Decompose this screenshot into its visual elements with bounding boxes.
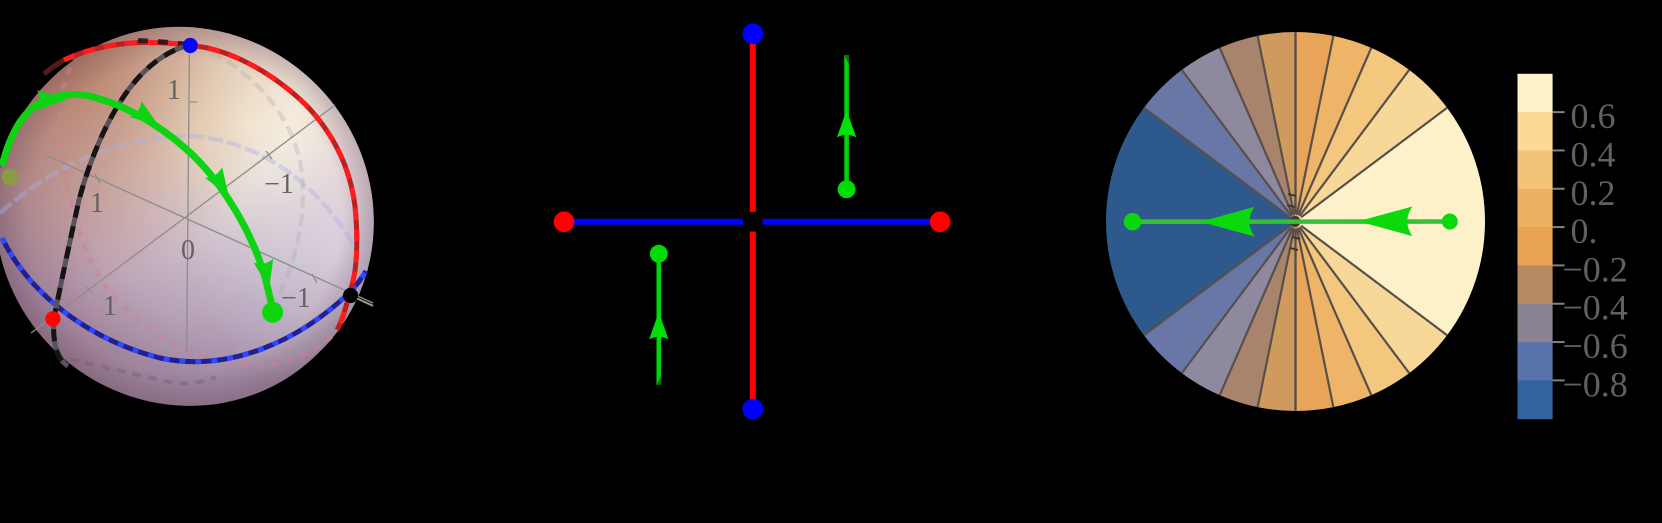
blue dot top [742,23,763,44]
colorbar tick -0.2 [1553,264,1565,266]
black dot on equator right [343,288,358,303]
sector cos -0.2..0 lower [1258,222,1296,412]
contour boundary line at +90 deg [1294,32,1296,215]
colorbar tick 0.4 [1553,149,1565,151]
trajectory arrowhead 1 [37,90,66,110]
red great circle back arc (faint pink) [59,54,337,367]
green vector lower-left: arrowhead [649,312,668,340]
colorbar [1518,74,1628,419]
north pole blue dot [183,38,198,53]
z tick [190,101,197,103]
axis A (to black dot) [48,156,373,303]
axis A outer dash [357,299,373,306]
contour boundary line at 270 down deg [1294,229,1296,412]
contour boundary line at +126.9 deg [1182,70,1292,216]
blue dot bottom [742,399,763,420]
sector cos 0.2..0.4 lower [1296,222,1372,408]
green dot right [1442,214,1458,230]
axis labels sphere [90,75,311,322]
sector cos -0.6..-0.4 lower [1182,222,1296,396]
green vector upper-right: dark tail cap [844,55,849,64]
colorbar band 0.6..0.8 [1518,74,1553,113]
sector cos 0.6..0.8 upper [1296,70,1448,222]
black great circle back arc, bottom-left portion [70,359,216,383]
green line across disk [1133,219,1450,224]
green vector upper-right: dot [838,180,856,198]
contour boundary line at +78.5 deg [1297,36,1334,215]
contour boundary line at +53.1 deg [1300,70,1410,216]
green arrowhead right [1358,207,1412,237]
colorbar tick 0. [1553,226,1565,228]
svg-text:0.4: 0.4 [1571,134,1616,174]
sector cos 0..0.2 upper [1296,32,1334,222]
contour boundary line at -113.6 deg [1220,228,1293,395]
contour boundary line at -90 deg [1294,229,1296,412]
trajectory arrowhead 2 [130,101,165,134]
green vector lower-left: dot [650,245,668,263]
contour boundary line at -126.9 deg [1182,227,1292,373]
sector cos -1..-0.8 (left, blue) [1106,108,1296,335]
green vector upper-right: line [844,55,849,189]
sector cos 0..0.2 lower [1296,222,1334,412]
green vector lower-left: dark tail cap [657,376,662,385]
contour boundary line at -143.1 deg [1144,226,1290,336]
svg-text:−0.2: −0.2 [1563,249,1628,289]
red great circle front arc [64,42,357,330]
green arrowhead left [1200,207,1254,237]
contour boundary line at +36.9 deg [1301,108,1447,218]
red great circle front arc fade-in tail [44,59,66,74]
colorbar band -1..-0.8 [1518,380,1553,419]
center tick dashes [1288,194,1296,196]
colorbar tick -0.8 [1553,379,1565,381]
svg-text:1: 1 [167,75,181,106]
svg-text:−1: −1 [281,283,311,314]
tick axis A right [312,274,317,283]
svg-text:−1: −1 [264,169,294,200]
center black dot [743,212,763,232]
tick axis B upper [266,151,272,159]
sphere body (perspective ellipse) [0,27,374,406]
green vector lower-left: line [656,254,661,385]
contour boundary line at -53.1 deg [1300,227,1410,373]
colorbar tick -0.4 [1553,303,1565,305]
green start dot (dim, behind sphere) [2,169,19,186]
sector cos 0.4..0.6 lower [1296,222,1410,396]
colorbar band 0.2..0.4 [1518,150,1553,189]
center dark blob [1290,216,1301,227]
red dot on equator [45,311,60,326]
green trajectory [2,95,272,305]
colorbar band -0.2..0 [1518,227,1553,266]
colorbar tick 0.2 [1553,188,1565,190]
sector cos -0.2..0 upper [1258,32,1296,222]
colorbar band 0..0.2 [1518,189,1553,228]
blue equator front arc [2,238,366,362]
colorbar band -0.8..-0.6 [1518,342,1553,381]
equator back arc (lavender) [0,136,366,271]
sector cos -0.4..-0.2 upper [1220,36,1296,222]
red dot right [930,211,951,232]
green end dot [262,302,283,323]
colorbar band 0.4..0.6 [1518,112,1553,151]
sector cos 0.2..0.4 upper [1296,36,1372,222]
svg-text:0.2: 0.2 [1571,173,1616,213]
green vector upper-right: arrowhead [837,110,856,138]
sector cos -0.6..-0.4 upper [1182,48,1296,222]
sector cos -0.8..-0.6 upper [1144,70,1296,222]
svg-text:1: 1 [103,291,117,322]
trajectory arrowhead 4 [254,259,279,291]
black dashes over red near pole [138,41,192,46]
contour boundary line at +113.6 deg [1220,48,1293,215]
colorbar tick -0.6 [1553,341,1565,343]
svg-text:0: 0 [181,235,195,266]
blue horizontal line [564,219,940,225]
svg-text:−0.8: −0.8 [1563,364,1628,404]
sector cos 0.4..0.6 upper [1296,48,1410,222]
red vertical line [750,34,756,409]
contour boundary line at -36.9 deg [1301,226,1447,336]
black great circle front arc [54,44,195,366]
sector cos -0.8..-0.6 lower [1144,222,1296,374]
z axis [187,47,190,352]
svg-text:−0.6: −0.6 [1563,326,1628,366]
svg-text:1: 1 [90,188,104,219]
colorbar tick 0.6 [1553,111,1565,113]
trajectory arrowhead 3 [205,167,237,202]
svg-text:0.: 0. [1571,211,1598,251]
contour boundary line at 90 up deg [1294,32,1296,215]
contour boundary line at +143.1 deg [1144,108,1290,218]
svg-text:0.6: 0.6 [1571,96,1616,136]
sector cos 0.6..0.8 lower [1296,222,1448,374]
contour boundary line at -101.5 deg [1258,228,1295,407]
green dot left [1124,213,1141,230]
tick axis A left [95,174,100,183]
tick axis B lower [86,286,92,293]
sector cos -0.4..-0.2 lower [1220,222,1296,408]
contour boundary line at +66.4 deg [1298,48,1371,215]
red dot left [554,211,575,232]
colorbar band -0.4..-0.2 [1518,265,1553,304]
sector cos 0.8..1 (right, cream) [1296,108,1486,335]
contour boundary line at +101.5 deg [1258,36,1295,215]
colorbar band -0.6..-0.4 [1518,304,1553,343]
svg-text:−0.4: −0.4 [1563,288,1628,328]
contour boundary line at -78.5 deg [1297,228,1334,407]
contour boundary line at -66.4 deg [1298,228,1371,395]
black great circle back arc (faint gray) [195,44,303,362]
axis B [31,105,335,333]
